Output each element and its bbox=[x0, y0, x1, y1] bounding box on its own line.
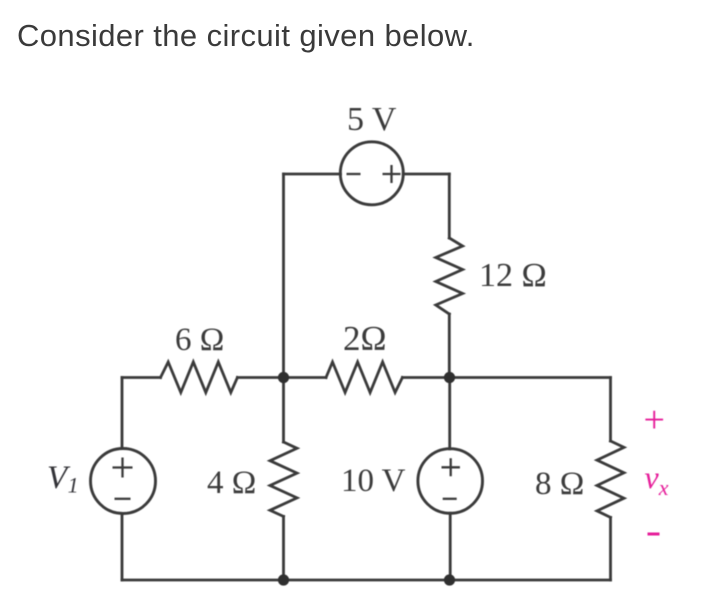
wire below 12 ohm to node B bbox=[448, 314, 451, 378]
junction node bottom left (4 ohm) bbox=[278, 574, 289, 585]
svg-text:8 Ω: 8 Ω bbox=[535, 466, 584, 502]
wire middle rail left segment bbox=[122, 376, 161, 379]
wire middle rail right segment bbox=[402, 376, 610, 379]
title text bbox=[17, 18, 475, 54]
wire bottom rail bbox=[122, 579, 611, 582]
wire left vertical of 5V loop bbox=[282, 174, 285, 378]
plus sign inside V1 source bbox=[113, 458, 133, 478]
wire 8 ohm branch upper bbox=[609, 378, 612, 442]
plus sign inside 5V source bbox=[383, 165, 401, 183]
wire 8 ohm branch lower bbox=[609, 517, 612, 580]
junction node at 2-ohm/12-ohm/10V bbox=[444, 372, 455, 383]
resistor 4 ohm bbox=[270, 442, 297, 516]
wire right vertical down to 12 ohm bbox=[448, 174, 451, 238]
voltage source 10V circle bbox=[418, 449, 483, 514]
wire left branch lower bbox=[121, 513, 124, 580]
svg-text:+: + bbox=[644, 399, 665, 441]
svg-text:vx: vx bbox=[645, 459, 669, 500]
voltage source V1 circle bbox=[91, 449, 156, 514]
wire 10V branch upper bbox=[448, 378, 451, 449]
wire top-right of 5V source to corner bbox=[403, 173, 449, 176]
junction node bottom right (10V) bbox=[444, 574, 455, 585]
plus sign inside 10V source bbox=[442, 458, 460, 476]
resistor 12 ohm bbox=[436, 238, 463, 314]
junction node at 6-ohm/2-ohm/4-ohm bbox=[278, 372, 289, 383]
wire 10V branch lower bbox=[449, 513, 452, 580]
minus sign inside 10V source bbox=[443, 498, 457, 500]
resistor 8 ohm bbox=[597, 441, 624, 517]
svg-text:4 Ω: 4 Ω bbox=[207, 465, 256, 501]
resistor 6 ohm bbox=[161, 362, 238, 393]
voltage source 5V circle bbox=[340, 142, 403, 205]
wire between 6 ohm and 2 ohm bbox=[237, 376, 326, 379]
label minus of vx bbox=[648, 533, 660, 536]
resistor 2 ohm bbox=[326, 362, 402, 393]
wire 4 ohm branch upper bbox=[282, 378, 285, 443]
svg-text:6 Ω: 6 Ω bbox=[175, 322, 224, 358]
minus sign inside V1 source bbox=[115, 498, 131, 500]
wire 4 ohm branch lower bbox=[282, 516, 285, 580]
wire top-left of 5V loop bbox=[284, 173, 341, 176]
svg-text:10 V: 10 V bbox=[341, 463, 406, 499]
wire left branch upper bbox=[121, 378, 124, 449]
svg-text:5 V: 5 V bbox=[347, 101, 397, 138]
minus sign inside 5V source bbox=[347, 173, 361, 175]
svg-text:V1: V1 bbox=[47, 460, 79, 498]
svg-text:2Ω: 2Ω bbox=[343, 319, 387, 358]
svg-text:12 Ω: 12 Ω bbox=[479, 257, 547, 294]
